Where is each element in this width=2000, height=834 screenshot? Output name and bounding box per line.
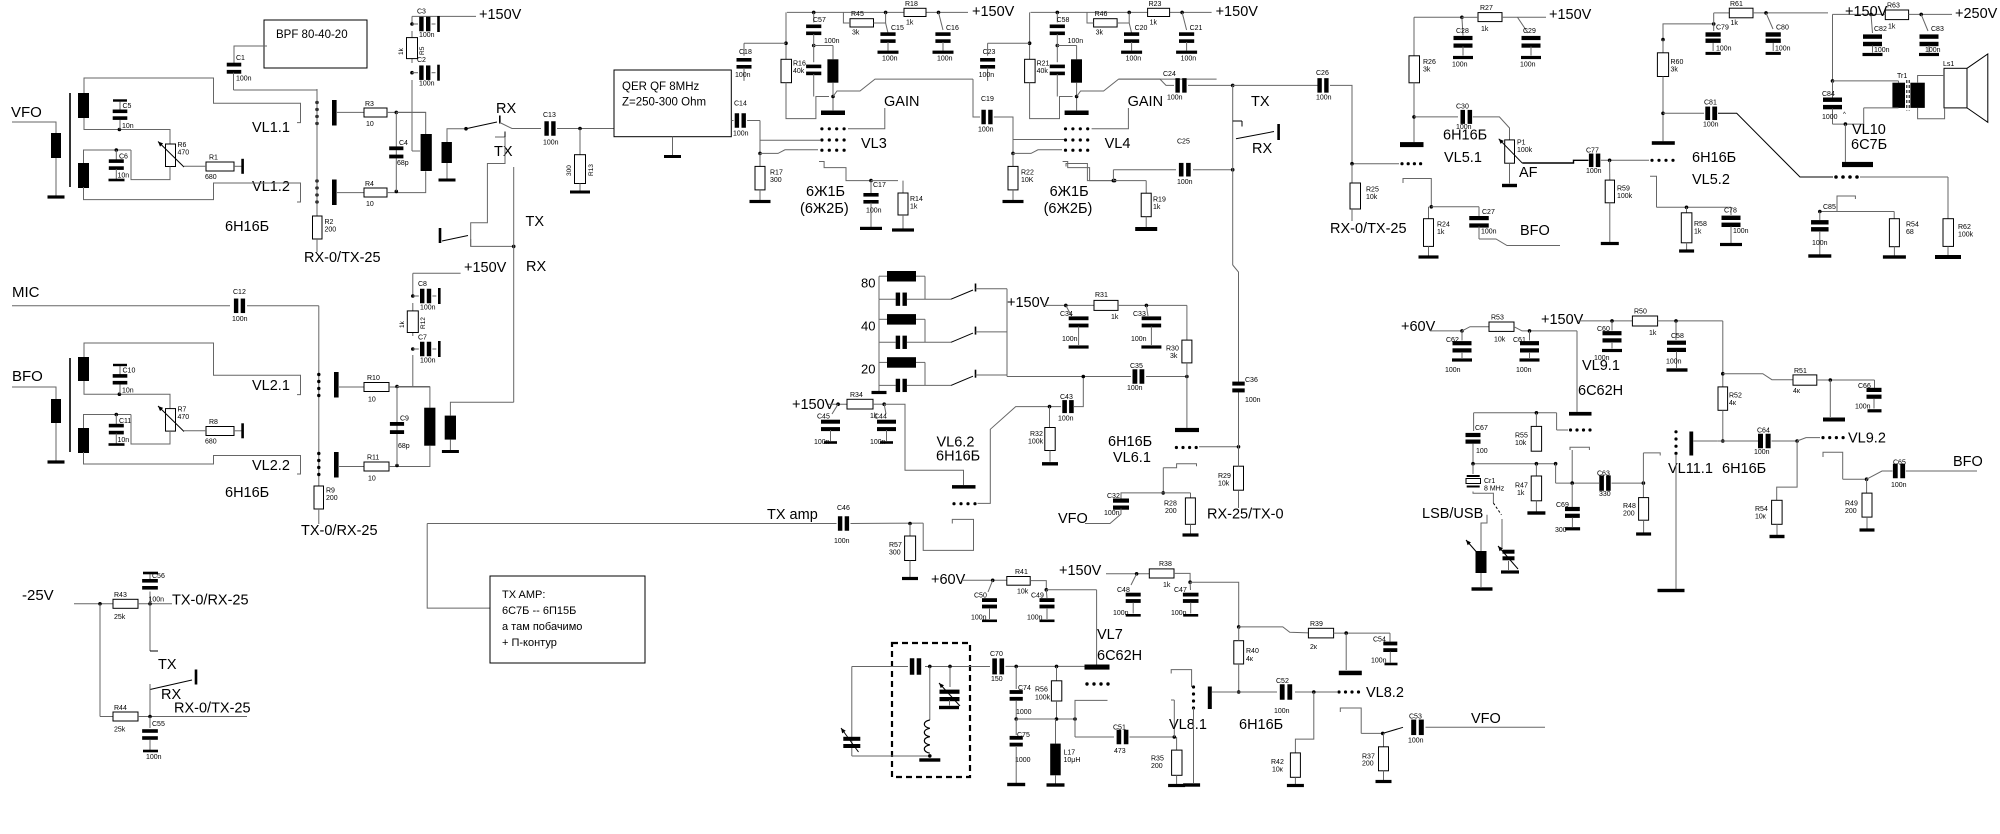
resistor R44: [113, 712, 138, 721]
svg-text:6Н16Б: 6Н16Б: [936, 449, 980, 465]
wire: [247, 305, 319, 307]
capacitor C52: [1280, 684, 1285, 700]
svg-text:TX: TX: [158, 657, 177, 673]
svg-text:R48: R48: [1623, 503, 1636, 510]
junction: [115, 148, 119, 152]
svg-text:C1: C1: [236, 55, 245, 62]
capacitor C57: [812, 11, 816, 15]
GAIN tap: [1092, 108, 1129, 129]
ground: [1535, 501, 1537, 512]
svg-text:C34: C34: [1060, 311, 1073, 318]
junction: [1412, 115, 1416, 119]
junction: [1231, 84, 1235, 88]
svg-text:100n: 100n: [866, 208, 882, 215]
svg-text:C85: C85: [1823, 204, 1836, 211]
svg-text:C49: C49: [1031, 593, 1044, 600]
capacitor C60: [1611, 321, 1613, 331]
svg-text:R53: R53: [1491, 315, 1504, 322]
svg-text:10: 10: [368, 476, 376, 483]
svg-text:100n: 100n: [1481, 229, 1497, 236]
svg-text:100n: 100n: [1594, 355, 1610, 362]
junction: [1113, 179, 1117, 183]
svg-text:C46: C46: [837, 505, 850, 512]
svg-text:R24: R24: [1437, 222, 1450, 229]
ground: [1145, 217, 1147, 227]
svg-text:R8: R8: [209, 419, 218, 426]
wire: [149, 684, 151, 717]
transformer T2 primary: [51, 399, 61, 423]
capacitor C67: [1473, 413, 1475, 431]
svg-text:200: 200: [1845, 508, 1857, 515]
wire: [84, 150, 132, 163]
capacitor C29: [1518, 17, 1529, 33]
svg-text:C66: C66: [1858, 383, 1871, 390]
svg-text:150: 150: [991, 676, 1003, 683]
svg-text:100n: 100n: [870, 439, 886, 446]
ground: [1601, 242, 1619, 245]
svg-text:R18: R18: [905, 1, 918, 8]
wire grid VL2.1: [84, 343, 301, 395]
svg-text:R1: R1: [209, 155, 218, 162]
tube VL5.1 grid: [1400, 162, 1403, 165]
junction: [1642, 481, 1646, 485]
wire: [1481, 515, 1487, 551]
svg-text:C27: C27: [1482, 209, 1495, 216]
svg-text:C28: C28: [1456, 28, 1469, 35]
capacitor C77: [1589, 154, 1594, 168]
wire: [1722, 321, 1724, 387]
tube VL9.1 plate: [1569, 412, 1592, 416]
svg-text:C4: C4: [399, 140, 408, 147]
junction: [395, 385, 399, 389]
junction: [1064, 304, 1068, 308]
svg-text:+ П-контур: + П-контур: [502, 637, 557, 649]
svg-text:100n: 100n: [824, 38, 840, 45]
wire: [871, 180, 898, 182]
resistor R1: [206, 162, 234, 171]
svg-text:R22: R22: [1021, 170, 1034, 177]
wire: [1658, 320, 1723, 322]
wire: [447, 129, 466, 142]
svg-text:100n: 100n: [1177, 179, 1193, 186]
svg-text:100n: 100n: [1666, 359, 1682, 366]
wire: [1146, 376, 1187, 378]
svg-text:6C62H: 6C62H: [1097, 648, 1142, 664]
ground: [919, 758, 940, 761]
junction: [1831, 79, 1835, 83]
ground: [1480, 573, 1482, 587]
switch arm: [150, 680, 192, 690]
wire: [1753, 12, 1828, 14]
transformer IF2 right: [445, 416, 456, 440]
capacitor C35: [1133, 369, 1138, 384]
svg-text:100k: 100k: [1958, 232, 1974, 239]
tube VL6.2 grid: [952, 502, 955, 505]
capacitor C3: [410, 22, 414, 26]
tube VL9.1 grid: [1569, 428, 1572, 431]
svg-text:R45: R45: [851, 11, 864, 18]
wire cathode VL1.2: [84, 183, 301, 202]
svg-text:+150V: +150V: [479, 7, 522, 23]
ground: [579, 184, 581, 192]
resistor R51: [1793, 375, 1817, 385]
svg-text:VL2.1: VL2.1: [252, 378, 290, 394]
resistor R55: [1535, 413, 1537, 427]
screen bypass capacitor: [1050, 65, 1065, 69]
svg-text:RX-0/TX-25: RX-0/TX-25: [174, 701, 251, 717]
wire: [138, 716, 247, 718]
resistor R14: [902, 181, 904, 193]
svg-text:10k: 10k: [1494, 337, 1506, 344]
tube VL7 plate: [1085, 665, 1110, 670]
capacitor C58: [1675, 321, 1677, 340]
capacitor C54: [1389, 633, 1391, 641]
trimmer capacitor right: [1503, 550, 1515, 554]
svg-text:100n: 100n: [1371, 658, 1387, 665]
svg-text:RX: RX: [496, 101, 516, 117]
svg-text:100n: 100n: [1703, 122, 1719, 129]
transformer T1 primary: [51, 133, 61, 158]
svg-text:2к: 2к: [1310, 644, 1318, 651]
capacitor C49: [1045, 590, 1048, 598]
resistor R54b 68: [1893, 212, 1895, 219]
junction: [1312, 690, 1316, 694]
svg-text:R23: R23: [1149, 1, 1162, 8]
svg-text:680: 680: [205, 174, 217, 181]
capacitor C46: [838, 516, 842, 531]
svg-text:R21: R21: [1037, 61, 1050, 68]
svg-text:Tr1: Tr1: [1897, 73, 1907, 80]
svg-text:R40: R40: [1246, 648, 1259, 655]
svg-text:VL5.1: VL5.1: [1444, 150, 1482, 166]
svg-text:C23: C23: [983, 49, 996, 56]
svg-text:100n: 100n: [1245, 397, 1261, 404]
svg-text:VL5.2: VL5.2: [1692, 172, 1730, 188]
svg-text:+150V: +150V: [1059, 563, 1102, 579]
capacitor C11: [115, 415, 117, 426]
wire: [1238, 627, 1240, 641]
potentiometer P1: [1505, 140, 1515, 163]
svg-text:3k: 3k: [1423, 67, 1431, 74]
svg-text:100n: 100n: [1925, 47, 1941, 54]
tube VL4 grids: [1064, 127, 1067, 130]
svg-text:100n: 100n: [979, 72, 995, 79]
svg-text:+150V: +150V: [1007, 295, 1050, 311]
svg-text:1k: 1k: [1150, 20, 1158, 27]
wire +150V rail VL4: [1031, 11, 1148, 13]
svg-text:C70: C70: [990, 651, 1003, 658]
capacitor C5: [113, 99, 127, 101]
wire: [1414, 116, 1458, 118]
svg-text:C17: C17: [873, 182, 886, 189]
svg-text:R27: R27: [1480, 5, 1493, 12]
svg-text:C25: C25: [1177, 139, 1190, 146]
resistor R48: [1642, 483, 1644, 498]
svg-text:R55: R55: [1515, 433, 1528, 440]
svg-text:C29: C29: [1523, 28, 1536, 35]
junction: [1795, 439, 1799, 443]
wire: [1173, 700, 1175, 737]
wire plus150 feed: [411, 16, 413, 24]
wire: [1555, 464, 1557, 483]
capacitor C25: [1112, 170, 1114, 181]
grid loop VL6.2: [923, 519, 973, 550]
svg-text:100n: 100n: [1104, 510, 1120, 517]
svg-text:200: 200: [1165, 508, 1177, 515]
svg-text:300: 300: [889, 550, 901, 557]
resistor R28: [1163, 492, 1190, 494]
wire: [1190, 582, 1239, 627]
junction: [1055, 717, 1059, 721]
svg-text:C43: C43: [1060, 394, 1073, 401]
junction: [1082, 375, 1086, 379]
junction: [1460, 15, 1464, 19]
svg-text:TX AMP:: TX AMP:: [502, 589, 545, 601]
svg-text:R58: R58: [1694, 221, 1707, 228]
wire main line: [1007, 376, 1131, 378]
wire +150V rail VL3: [787, 11, 904, 13]
svg-text:R29: R29: [1218, 473, 1231, 480]
ground: [1183, 783, 1200, 786]
svg-text:100n: 100n: [1181, 56, 1197, 63]
svg-text:C45: C45: [817, 414, 830, 421]
svg-text:100n: 100n: [1113, 610, 1129, 617]
junction: [1048, 405, 1052, 409]
resistor R54: [1772, 500, 1783, 524]
svg-text:R17: R17: [770, 170, 783, 177]
svg-text:VL2.2: VL2.2: [252, 458, 290, 474]
resistor R50: [1632, 316, 1657, 326]
junction: [869, 179, 873, 183]
svg-text:C65: C65: [1893, 460, 1906, 467]
svg-text:R14: R14: [910, 196, 923, 203]
capacitor C21: [1182, 12, 1187, 30]
svg-text:BFO: BFO: [12, 368, 43, 385]
svg-text:100n: 100n: [419, 32, 435, 39]
resistor R59: [1609, 160, 1611, 180]
svg-text:VL11.1: VL11.1: [1668, 461, 1713, 477]
svg-text:VL1.2: VL1.2: [252, 179, 290, 195]
svg-text:40k: 40k: [793, 68, 805, 75]
svg-text:C14: C14: [734, 101, 747, 108]
svg-text:3k: 3k: [1170, 353, 1178, 360]
ground: [672, 137, 674, 155]
transformer T1 secondary top: [78, 93, 89, 118]
svg-text:VL8.1: VL8.1: [1169, 717, 1207, 733]
wire: [318, 509, 320, 524]
svg-text:C9: C9: [400, 416, 409, 423]
wire: [387, 171, 426, 192]
resistor R58: [1686, 207, 1688, 213]
resistor R62: [1947, 177, 1949, 219]
wire: [1238, 490, 1240, 508]
svg-text:C5: C5: [123, 103, 132, 110]
svg-text:6Ж1Б: 6Ж1Б: [806, 184, 845, 200]
wire: [1509, 163, 1511, 183]
svg-text:TX: TX: [1251, 94, 1270, 110]
resistor R30: [1186, 305, 1188, 340]
wire: [1843, 478, 1867, 480]
svg-text:100n: 100n: [1316, 95, 1332, 102]
capacitor C19: [973, 79, 980, 117]
lower switch TX-0/RX-25: [439, 228, 442, 243]
svg-text:100n: 100n: [1062, 336, 1078, 343]
svg-text:1000: 1000: [1822, 114, 1838, 121]
wire: [337, 192, 364, 194]
svg-text:TX-0/RX-25: TX-0/RX-25: [172, 593, 249, 609]
junction: [1344, 631, 1348, 635]
tube VL10 plate: [1842, 162, 1873, 167]
wire: [1118, 304, 1187, 306]
svg-text:10k: 10k: [1515, 440, 1527, 447]
grid bracket VL8.1 top: [1171, 670, 1191, 687]
svg-text:C84: C84: [1822, 91, 1835, 98]
svg-text:C8: C8: [418, 281, 427, 288]
junction: [1869, 13, 1873, 17]
cathode bracket VL3: [819, 162, 871, 181]
capacitor C80: [1766, 13, 1773, 29]
wire: [1361, 732, 1383, 734]
capacitor C66: [1874, 380, 1876, 388]
wire: [316, 239, 318, 252]
resistor R37: [1383, 733, 1385, 746]
ground: [1012, 190, 1014, 200]
svg-text:C67: C67: [1475, 425, 1488, 432]
svg-text:1k: 1k: [1481, 26, 1489, 33]
resistor R61: [1713, 13, 1715, 24]
wire: [1046, 589, 1096, 591]
svg-text:C35: C35: [1130, 363, 1143, 370]
svg-text:а там побачимо: а там побачимо: [502, 621, 582, 633]
svg-text:300: 300: [770, 177, 782, 184]
svg-text:10n: 10n: [118, 173, 130, 180]
wire: [1074, 719, 1076, 737]
wire: [1233, 84, 1318, 86]
capacitor C44: [884, 404, 886, 414]
junction: [908, 522, 912, 526]
ground: [1176, 775, 1178, 784]
svg-text:100n: 100n: [1171, 610, 1187, 617]
svg-text:100n: 100n: [1855, 404, 1871, 411]
wire: [397, 386, 430, 388]
svg-text:R61: R61: [1730, 1, 1743, 8]
wire: [396, 111, 425, 113]
wire: [1056, 34, 1058, 62]
capacitor C20: [1128, 12, 1130, 23]
svg-text:R42: R42: [1271, 759, 1284, 766]
svg-text:VFO: VFO: [11, 104, 42, 121]
svg-text:470: 470: [178, 414, 190, 421]
junction: [395, 190, 399, 194]
ground: [1007, 783, 1025, 786]
wire: [1199, 446, 1238, 448]
capacitor C81: [1705, 107, 1710, 121]
wire: [1722, 410, 1724, 440]
capacitor C83: [1921, 14, 1928, 31]
resistor R42: [1290, 753, 1300, 777]
svg-text:10к: 10к: [1272, 767, 1284, 774]
svg-text:C58: C58: [1057, 17, 1070, 24]
svg-text:10K: 10K: [1021, 177, 1034, 184]
capacitor C50: [988, 580, 993, 592]
wire: [1015, 701, 1017, 719]
wire RX to C13: [500, 123, 541, 129]
svg-text:10μH: 10μH: [1064, 757, 1081, 764]
svg-text:470: 470: [178, 150, 190, 157]
svg-text:8 MHz: 8 MHz: [1484, 486, 1505, 493]
resistor R32: [1049, 407, 1051, 428]
ground: [1866, 517, 1868, 529]
junction: [758, 152, 762, 156]
wire: [1918, 76, 1944, 83]
svg-text:100k: 100k: [1517, 147, 1533, 154]
svg-text:R37: R37: [1362, 754, 1375, 761]
wire: [1723, 374, 1793, 380]
svg-text:TX-0/RX-25: TX-0/RX-25: [301, 523, 378, 539]
capacitor C1: [234, 46, 267, 63]
svg-text:R57: R57: [889, 542, 902, 549]
wire: [12, 305, 230, 307]
svg-text:+150V: +150V: [1216, 4, 1259, 20]
svg-text:C51: C51: [1113, 725, 1126, 732]
BPF box: [264, 20, 367, 68]
capacitor C79: [1713, 24, 1715, 31]
wire: [138, 603, 172, 605]
svg-text:100n: 100n: [1126, 56, 1142, 63]
svg-text:R35: R35: [1151, 756, 1164, 763]
tube VL5.2 plate: [1652, 141, 1675, 145]
svg-text:VL1.1: VL1.1: [252, 120, 290, 136]
wire: [878, 299, 880, 391]
resistor R38: [1149, 569, 1174, 578]
resistor R41: [1007, 577, 1030, 586]
cathode bracket VL9.1: [1570, 447, 1589, 450]
svg-text:R16: R16: [793, 61, 806, 68]
resistor R18: [904, 8, 926, 16]
wire: [427, 524, 490, 609]
svg-text:100n: 100n: [735, 72, 751, 79]
resistor R57: [909, 524, 911, 541]
junction: [1237, 625, 1241, 629]
svg-text:200: 200: [326, 495, 338, 502]
svg-text:C60: C60: [1597, 326, 1610, 333]
tube VL6.2 plate: [952, 485, 976, 489]
svg-text:6Ж1Б: 6Ж1Б: [1050, 184, 1089, 200]
wire: [1462, 16, 1478, 18]
wire: [851, 667, 853, 757]
wire: [1777, 441, 1797, 500]
resistor R34: [847, 399, 873, 409]
resistor R5: [407, 38, 418, 59]
capacitor C8: [411, 294, 415, 298]
svg-text:100n: 100n: [1274, 708, 1290, 715]
svg-text:200: 200: [1623, 511, 1635, 518]
svg-text:100n: 100n: [978, 127, 994, 134]
svg-text:R10: R10: [367, 375, 380, 382]
capacitor C14: [731, 120, 733, 122]
tube VL11.1: [1674, 430, 1677, 433]
capacitor C56: [149, 592, 151, 604]
wire: [1238, 447, 1240, 466]
transformer T1 secondary bottom: [78, 163, 89, 188]
svg-text:+150V: +150V: [1549, 7, 1592, 23]
junction: [1127, 11, 1131, 15]
capacitor C74: [1015, 666, 1017, 689]
svg-text:R6: R6: [178, 142, 187, 149]
wire: [1085, 509, 1121, 524]
wire: [1130, 736, 1175, 738]
junction: [882, 402, 886, 406]
